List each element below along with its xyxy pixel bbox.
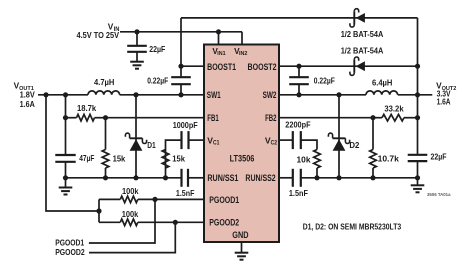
svg-text:PGOOD1: PGOOD1 [55,237,84,247]
label D2 [349,140,359,150]
svg-text:C2: C2 [271,140,278,147]
junction gnd/D2 [336,175,341,180]
pin label GND [232,230,248,240]
junction BOOST2/C4 [296,64,301,69]
label 1.6A (ch2) [437,97,451,107]
svg-text:D1: D1 [147,140,156,150]
svg-text:D2: D2 [349,140,359,150]
junction PGOOD1 riser [152,197,157,202]
wire VIN2 stub [241,32,243,45]
svg-text:0.22µF: 0.22µF [147,76,168,86]
pin label VIN1 [212,47,226,57]
capacitor C9 22uF output [408,151,447,161]
label VOUT1 [14,80,35,92]
label 2200pF [285,120,310,130]
junction BOOST2/VOUT2 riser [415,64,420,69]
label 1.5nF (ch1) [176,188,195,198]
junction gnd/R2 [103,175,108,180]
wire VOUT1 rail [38,94,204,96]
svg-text:10.7k: 10.7k [378,154,400,164]
junction gnd/R3 [163,175,168,180]
label 100k (R4) [122,186,139,196]
resistor R5 100k (PGOOD2) [99,219,204,226]
svg-text:FB1: FB1 [207,113,218,123]
label 1.6A (ch1) [20,99,35,109]
capacitor C1 22uF input [127,32,165,62]
svg-text:1.5nF: 1.5nF [176,188,195,198]
capacitor C5 1000pF [182,131,189,149]
label PGOOD1 (external) [55,237,84,247]
capacitor C4 0.22uF (boost2) [289,66,335,95]
wire VOUT2 rail [279,94,432,96]
watermark 3506 TA01a [427,192,451,197]
svg-text:1.8V: 1.8V [20,89,36,99]
svg-text:PGOOD1: PGOOD1 [209,195,239,205]
junction FB1 node [103,115,108,120]
svg-text:LT3506: LT3506 [230,153,255,163]
inductor L2 6.4uH [366,91,398,95]
junction R1/C3 [63,115,68,120]
junction PGOOD2 riser [173,220,178,225]
svg-text:15k: 15k [172,153,185,163]
junction VOUT2/riser [415,92,420,97]
svg-text:GND: GND [232,230,248,240]
svg-text:15k: 15k [113,153,126,163]
junction VIN1 stub [216,29,221,34]
label PGOOD2 (external) [55,247,85,257]
label 6.4uH [372,77,392,87]
junction riser/gnd rail [415,175,420,180]
junction SW2/D2 [336,92,341,97]
label 1/2 BAT-54A (lower) [341,46,384,56]
wire PGOOD pull-up from VOUT1 [46,95,99,211]
label 4.5V TO 25V [77,30,120,40]
wire GND pin [241,242,243,253]
svg-text:IN1: IN1 [217,51,226,57]
label 18.7k [77,103,97,113]
svg-text:2200pF: 2200pF [285,120,310,130]
wire FB2 [279,117,373,119]
junction pull-up/100k [96,208,101,213]
resistor R1 18.7k [66,114,106,121]
wire BOOST2 pin [279,65,418,67]
resistor R8 10k [314,150,321,178]
part name LT3506 [230,153,255,163]
ground (output) [411,178,425,193]
svg-text:100k: 100k [122,209,139,219]
label 1000pF [173,120,198,130]
pin label FB1 [207,113,218,123]
svg-text:47µF: 47µF [79,153,94,163]
wire 100k connector [98,199,100,222]
pin label BOOST2 [248,62,277,72]
label D1 [147,140,156,150]
resistor R6 33.2k [373,114,418,121]
inductor L1 4.7uH [88,91,120,95]
pin label SW2 [263,90,277,100]
svg-text:BOOST1: BOOST1 [207,62,236,72]
pin label RUN/SS1 [207,173,238,183]
junction gnd/D1 [133,175,138,180]
wire BOOST1 drop [180,18,182,95]
pin label BOOST1 [207,62,236,72]
svg-text:1.6A: 1.6A [437,97,451,107]
svg-text:4.7µH: 4.7µH [94,77,114,87]
junction SW1/D1 [133,92,138,97]
wire BOOST1 pin [181,65,204,67]
IC U1 LT3506 body [204,45,279,243]
svg-text:3506 TA01a: 3506 TA01a [427,192,451,197]
wire VC1 + corner [166,140,205,178]
label 33.2k [384,104,404,114]
wire FB1 [106,117,205,119]
pin label VC2 [265,135,277,146]
svg-text:SW2: SW2 [263,90,277,100]
ground (ch1 rail) [59,178,73,195]
junction BOOST1 [178,64,183,69]
label 1.8V [20,89,36,99]
label VIN [108,21,120,33]
svg-text:4.5V TO 25V: 4.5V TO 25V [77,30,120,40]
junction SW2/boost cap [296,92,301,97]
capacitor C8 1.5nF (RUN/SS2) [279,169,301,187]
svg-text:PGOOD2: PGOOD2 [209,218,239,228]
svg-text:22µF: 22µF [431,151,447,161]
resistor R7 10.7k [370,118,377,178]
junction gnd/R8 [314,175,319,180]
svg-text:RUN/SS1: RUN/SS1 [207,173,238,183]
wire VIN rail [120,31,242,33]
diode D4 1/2 BAT-54A (BOOST2) [350,57,365,75]
resistor R2 15k (FB1 divider) [102,118,109,178]
wire PGOOD1 breakout [89,199,155,243]
junction gnd/R7 [370,175,375,180]
resistor R3 15k (comp1) [162,150,169,169]
capacitor C6 1.5nF (RUN/SS1) [182,169,205,187]
capacitor C7 2200pF [293,131,301,149]
junction VIN/C1 [134,29,139,34]
svg-text:BOOST2: BOOST2 [248,62,277,72]
junction VOUT1/pullup [43,92,48,97]
diode D3 1/2 BAT-54A (BOOST1) [350,9,365,27]
label 4.7uH [94,77,114,87]
pin label SW1 [207,90,221,100]
capacitor C3 47uF [55,95,94,178]
junction SW1/boost cap [178,92,183,97]
label 100k (R5) [122,209,139,219]
svg-text:33.2k: 33.2k [384,104,404,114]
svg-text:IN2: IN2 [239,51,247,57]
wire PGOOD2 breakout [89,222,175,252]
note D1 D2 part numbers [303,222,402,232]
svg-text:1.6A: 1.6A [20,99,35,109]
svg-text:22µF: 22µF [149,44,165,54]
svg-text:10k: 10k [297,155,311,165]
pin label PGOOD2 [209,218,239,228]
svg-text:PGOOD2: PGOOD2 [55,247,85,257]
label 15k (R3) [172,153,185,163]
svg-text:RUN/SS2: RUN/SS2 [245,173,275,183]
wire VOUT2 riser [417,18,419,178]
pin label VC1 [207,135,219,146]
svg-text:SW1: SW1 [207,90,221,100]
pin label VIN2 [234,47,247,57]
label 3.3V [437,88,451,98]
wire ch1 ground rail [66,177,182,179]
label 1/2 BAT-54A (top) [341,29,384,39]
svg-text:18.7k: 18.7k [77,103,97,113]
svg-text:6.4µH: 6.4µH [372,77,392,87]
ground (GND pin) [235,253,249,260]
label 1.5nF (ch2) [289,188,308,198]
svg-text:100k: 100k [122,186,139,196]
junction FB2 node [370,115,375,120]
resistor R4 100k (PGOOD1) [99,196,204,203]
svg-text:1.5nF: 1.5nF [289,188,308,198]
wire boost top rail [181,17,418,19]
ground (input cap) [130,62,144,69]
pin label PGOOD1 [209,195,239,205]
svg-text:1/2 BAT-54A: 1/2 BAT-54A [341,46,384,56]
pin label RUN/SS2 [245,173,275,183]
junction gnd/C3 [63,175,68,180]
svg-text:FB2: FB2 [265,113,276,123]
label 10k [297,155,311,165]
wire VIN1 stub [218,32,220,45]
diode D1 MBR5230LT3 [125,95,146,178]
svg-text:1000pF: 1000pF [173,120,198,130]
capacitor C2 0.22uF (boost1) [147,76,191,86]
svg-text:0.22µF: 0.22µF [314,76,335,86]
wire ch2 ground rail [301,177,418,179]
pin label FB2 [265,113,276,123]
diode D2 MBR5230LT3 [328,95,349,178]
junction VOUT1/C3 [63,92,68,97]
label VOUT2 [436,80,457,92]
label 10.7k [378,154,400,164]
svg-text:D1, D2: ON SEMI MBR5230LT3: D1, D2: ON SEMI MBR5230LT3 [303,222,402,232]
svg-text:C1: C1 [213,140,220,147]
wire VC2 + corner [279,140,317,149]
svg-text:1/2 BAT-54A: 1/2 BAT-54A [341,29,384,39]
label 15k (R2) [113,153,126,163]
junction riser/FB2 divider [415,115,420,120]
